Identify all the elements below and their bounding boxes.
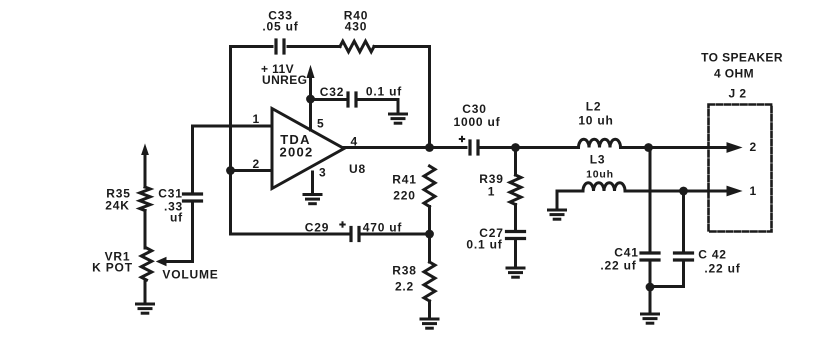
svg-text:0.1 uf: 0.1 uf — [366, 85, 402, 99]
svg-text:2002: 2002 — [279, 145, 313, 160]
svg-text:430: 430 — [345, 20, 367, 34]
svg-text:R41: R41 — [392, 173, 416, 187]
svg-text:2.2: 2.2 — [395, 280, 414, 294]
svg-text:4 OHM: 4 OHM — [714, 67, 754, 81]
svg-text:C31: C31 — [158, 187, 182, 201]
svg-text:C29: C29 — [305, 221, 329, 235]
svg-text:4: 4 — [351, 135, 358, 149]
svg-text:3: 3 — [319, 166, 326, 180]
svg-text:.22 uf: .22 uf — [600, 259, 636, 273]
svg-text:TO SPEAKER: TO SPEAKER — [701, 51, 783, 65]
svg-text:C32: C32 — [320, 85, 344, 99]
svg-text:U8: U8 — [349, 162, 366, 176]
svg-text:R38: R38 — [392, 264, 416, 278]
svg-text:uf: uf — [170, 211, 183, 225]
svg-text:K POT: K POT — [92, 261, 133, 275]
svg-text:0.1 uf: 0.1 uf — [466, 238, 502, 252]
svg-text:470 uf: 470 uf — [363, 221, 403, 235]
svg-text:220: 220 — [393, 189, 415, 203]
svg-text:1000 uf: 1000 uf — [454, 115, 501, 129]
svg-text:24K: 24K — [105, 199, 129, 213]
svg-text:.22 uf: .22 uf — [704, 262, 740, 276]
svg-text:5: 5 — [317, 117, 324, 131]
svg-text:UNREG: UNREG — [262, 73, 307, 87]
svg-text:L3: L3 — [590, 153, 606, 167]
svg-text:1: 1 — [750, 184, 757, 198]
svg-text:10uh: 10uh — [586, 169, 614, 181]
svg-text:VOLUME: VOLUME — [162, 268, 218, 282]
svg-text:C 42: C 42 — [698, 248, 727, 262]
svg-text:2: 2 — [253, 157, 260, 171]
svg-text:1: 1 — [488, 185, 495, 199]
svg-text:C30: C30 — [462, 102, 486, 116]
svg-text:L2: L2 — [586, 100, 602, 114]
svg-text:2: 2 — [750, 140, 757, 154]
svg-text:J 2: J 2 — [729, 87, 747, 101]
svg-text:10 uh: 10 uh — [578, 114, 613, 128]
svg-text:C41: C41 — [614, 246, 638, 260]
svg-text:.05 uf: .05 uf — [262, 20, 298, 34]
svg-text:1: 1 — [253, 112, 260, 126]
